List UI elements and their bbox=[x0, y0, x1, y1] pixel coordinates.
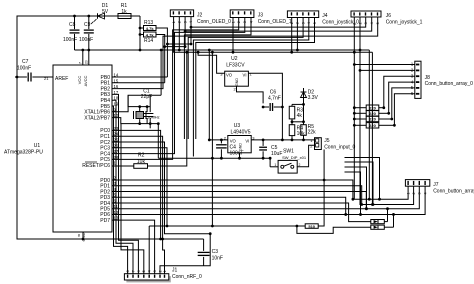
svg-text:220: 220 bbox=[369, 123, 376, 128]
svg-text:4k: 4k bbox=[297, 113, 303, 119]
svg-text:16MHz: 16MHz bbox=[147, 115, 160, 120]
svg-text:Conn_button_array_0: Conn_button_array_0 bbox=[425, 81, 474, 87]
svg-text:10k: 10k bbox=[137, 159, 146, 165]
svg-text:4: 4 bbox=[148, 270, 152, 272]
svg-text:4,7k: 4,7k bbox=[146, 26, 155, 31]
svg-text:U2: U2 bbox=[231, 56, 238, 62]
svg-text:VI: VI bbox=[245, 138, 249, 143]
svg-text:J2: J2 bbox=[197, 13, 203, 19]
svg-text:10nF: 10nF bbox=[212, 256, 223, 262]
svg-text:Conn_input_0: Conn_input_0 bbox=[324, 145, 355, 151]
svg-text:220: 220 bbox=[369, 111, 376, 116]
svg-text:U1: U1 bbox=[34, 143, 41, 149]
svg-text:C9: C9 bbox=[84, 22, 91, 28]
svg-text:3: 3 bbox=[418, 192, 422, 194]
svg-text:PD7: PD7 bbox=[100, 218, 110, 224]
svg-text:Conn_joystick_1: Conn_joystick_1 bbox=[386, 20, 423, 26]
svg-text:SW_DIP_x01: SW_DIP_x01 bbox=[282, 155, 307, 160]
svg-text:SW1: SW1 bbox=[283, 148, 294, 154]
svg-text:R14: R14 bbox=[144, 38, 153, 44]
svg-text:22k: 22k bbox=[308, 130, 317, 136]
svg-text:Conn_button_array: Conn_button_array bbox=[433, 189, 474, 195]
svg-text:J6: J6 bbox=[386, 13, 392, 19]
svg-text:7: 7 bbox=[79, 62, 83, 64]
svg-text:GND: GND bbox=[81, 232, 86, 241]
svg-text:3: 3 bbox=[153, 270, 157, 272]
svg-text:21: 21 bbox=[44, 76, 49, 81]
svg-text:4,7k: 4,7k bbox=[146, 33, 155, 38]
svg-text:Conn_nRF_0: Conn_nRF_0 bbox=[172, 274, 202, 280]
svg-text:J7: J7 bbox=[433, 182, 439, 188]
svg-text:3.3V: 3.3V bbox=[308, 95, 319, 101]
svg-text:20: 20 bbox=[85, 60, 89, 64]
svg-text:100nF: 100nF bbox=[63, 37, 77, 43]
svg-text:2: 2 bbox=[299, 163, 301, 167]
svg-text:VO: VO bbox=[230, 138, 237, 143]
svg-text:LF33CV: LF33CV bbox=[226, 63, 245, 69]
svg-text:4,7nF: 4,7nF bbox=[268, 96, 281, 102]
svg-text:C7: C7 bbox=[22, 59, 29, 65]
svg-text:Conn_OLED_1: Conn_OLED_1 bbox=[258, 19, 292, 25]
svg-text:R2: R2 bbox=[138, 153, 145, 159]
svg-text:10uF: 10uF bbox=[271, 151, 282, 157]
svg-text:220: 220 bbox=[369, 117, 376, 122]
svg-text:22pF: 22pF bbox=[141, 94, 152, 100]
svg-text:C8: C8 bbox=[69, 22, 76, 28]
svg-text:R13: R13 bbox=[144, 20, 153, 26]
svg-text:1k: 1k bbox=[121, 9, 127, 15]
svg-text:100nF: 100nF bbox=[230, 151, 244, 157]
svg-text:100nF: 100nF bbox=[79, 37, 93, 43]
svg-text:XTAL2/PB7: XTAL2/PB7 bbox=[84, 115, 110, 121]
svg-text:J8: J8 bbox=[425, 75, 431, 81]
svg-text:2: 2 bbox=[158, 270, 162, 272]
svg-text:L4940V5: L4940V5 bbox=[231, 130, 251, 136]
svg-text:510: 510 bbox=[308, 224, 315, 229]
svg-text:5: 5 bbox=[142, 270, 146, 272]
svg-text:GND: GND bbox=[235, 78, 239, 86]
svg-text:C3: C3 bbox=[212, 249, 219, 255]
svg-text:2: 2 bbox=[412, 192, 416, 194]
svg-text:100nF: 100nF bbox=[17, 66, 31, 72]
svg-text:VO: VO bbox=[226, 73, 233, 78]
svg-text:Conn_OLED_0: Conn_OLED_0 bbox=[197, 19, 231, 25]
svg-text:VCC: VCC bbox=[77, 76, 82, 85]
svg-text:ATmega328P-PU: ATmega328P-PU bbox=[4, 150, 43, 156]
svg-text:5V: 5V bbox=[102, 9, 109, 15]
svg-text:RESET/PC6: RESET/PC6 bbox=[82, 163, 110, 169]
svg-text:J1: J1 bbox=[172, 268, 178, 274]
svg-text:1: 1 bbox=[406, 192, 410, 194]
svg-text:AVCC: AVCC bbox=[83, 75, 88, 86]
svg-text:4: 4 bbox=[423, 192, 427, 194]
svg-text:U3: U3 bbox=[234, 123, 241, 129]
svg-text:1: 1 bbox=[163, 270, 167, 272]
svg-text:J5: J5 bbox=[324, 138, 330, 144]
svg-text:1: 1 bbox=[274, 163, 276, 167]
svg-text:AREF: AREF bbox=[55, 76, 68, 82]
svg-text:1: 1 bbox=[172, 21, 176, 23]
svg-text:VI: VI bbox=[243, 73, 247, 78]
svg-text:J3: J3 bbox=[258, 13, 264, 19]
svg-text:7: 7 bbox=[131, 270, 135, 272]
svg-text:220: 220 bbox=[369, 105, 376, 110]
svg-text:8: 8 bbox=[126, 270, 130, 272]
svg-text:6: 6 bbox=[137, 270, 141, 272]
svg-text:J4: J4 bbox=[322, 13, 328, 19]
